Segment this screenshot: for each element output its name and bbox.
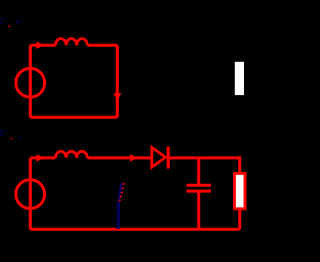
inductor L (top circuit) (56, 39, 88, 46)
wire: bottom-circuit top branch (left of inductor) (30, 156, 55, 159)
wire: bottom-circuit left branch (29, 158, 32, 229)
current arrow (before diode, pointing right) (130, 154, 138, 161)
diode D triangle (152, 147, 166, 167)
load resistor R fill (border invisible, top circuit) (235, 62, 244, 95)
switch S open lever (dark navy) (118, 183, 121, 229)
switch S dashed red arc dots (119, 183, 125, 202)
wire: diode to output node (170, 156, 240, 159)
wire: resistor bottom lead (238, 210, 241, 229)
current arrow (bottom-circuit left, pointing right) (36, 154, 44, 161)
wire: top-circuit top branch (right of inductor) (87, 44, 117, 47)
faint label remnant left (i) (0, 130, 20, 140)
capacitor C top plate (187, 184, 212, 187)
wire: capacitor bottom lead (197, 192, 200, 229)
wire: top-circuit bottom branch (30, 116, 117, 119)
wire: top-circuit top branch (left of inductor) (30, 44, 55, 47)
diode D cathode bar (167, 147, 170, 169)
current arrow (right wire, pointing down) (113, 93, 121, 100)
load resistor R (bottom circuit, red border white fill) (234, 173, 245, 208)
wire: bottom-circuit bottom branch (30, 228, 239, 231)
voltage source Vi (top circuit) (16, 68, 45, 97)
voltage source Vi (bottom circuit) (16, 180, 45, 209)
wire: top-circuit right branch (closed switch path) (116, 45, 119, 117)
capacitor C bottom plate (187, 190, 212, 193)
wire: top-circuit left branch (29, 45, 32, 117)
wire: bottom-circuit top branch (inductor to diode) (87, 156, 150, 159)
wire: capacitor top lead (197, 158, 200, 184)
wire: bottom-circuit right branch top (to resistor) (238, 156, 241, 172)
current arrow (top wire, pointing right) (36, 42, 44, 49)
faint label remnant top-left (i) (0, 18, 20, 27)
inductor L (bottom circuit) (56, 151, 88, 158)
